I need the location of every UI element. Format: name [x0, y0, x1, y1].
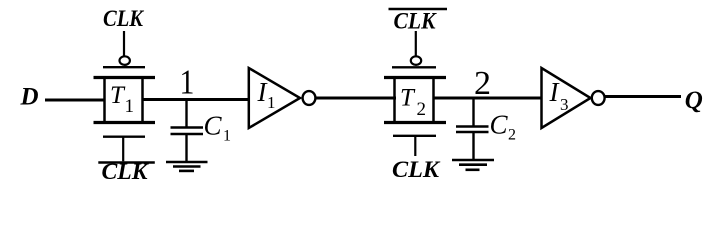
capacitor C2: [456, 98, 489, 160]
svg-text:CLK: CLK: [392, 157, 441, 182]
svg-text:2: 2: [417, 99, 427, 120]
T2 bottom gate bar: [393, 135, 436, 137]
svg-text:D: D: [20, 84, 39, 111]
wire T2 to I3 (node 2): [434, 97, 543, 100]
T2 top gate bar: [392, 66, 436, 68]
bubble I1 output: [303, 91, 316, 105]
wire I3 to Q: [605, 95, 681, 98]
bubble T2 top gate: [411, 56, 421, 65]
svg-text:1: 1: [223, 128, 231, 145]
wire T1 to I1 (node 1): [143, 98, 250, 101]
ground (C1): [166, 162, 208, 171]
svg-text:T: T: [400, 85, 416, 112]
wire CLK stub to T2 top bubble: [415, 31, 417, 56]
svg-text:2: 2: [474, 65, 491, 102]
capacitor C1: [171, 100, 204, 162]
svg-text:Q: Q: [685, 87, 703, 114]
inverter I3: [542, 68, 591, 128]
label node 1: [180, 63, 195, 102]
T1 top gate bar: [103, 66, 145, 68]
svg-text:C: C: [490, 110, 509, 140]
transmission gate T1: [94, 76, 156, 124]
label CLK-bar (T1 bottom): overline: [98, 161, 155, 164]
transmission gate T2: [384, 76, 446, 124]
svg-text:CLK: CLK: [103, 6, 144, 31]
bubble I3 output: [592, 91, 605, 105]
svg-text:3: 3: [560, 95, 569, 114]
wire D to T1: [45, 99, 105, 102]
svg-text:CLK: CLK: [102, 159, 150, 184]
wire T1 bottom gate stub: [122, 137, 124, 161]
svg-text:1: 1: [180, 63, 195, 102]
inverter I1: [249, 68, 300, 128]
svg-text:C: C: [204, 111, 223, 141]
svg-text:CLK: CLK: [394, 8, 438, 33]
svg-text:1: 1: [125, 96, 135, 117]
T1 bottom gate bar: [103, 136, 145, 138]
label CLK-bar (T2 top): overline: [389, 8, 448, 11]
svg-text:1: 1: [267, 93, 276, 112]
wire I1 to T2: [316, 97, 396, 100]
svg-text:2: 2: [508, 127, 516, 144]
wire CLK stub to T1 top bubble: [123, 31, 125, 56]
wire T2 bottom gate stub: [414, 136, 416, 156]
bubble T1 top gate: [120, 56, 130, 65]
ground (C2): [452, 160, 494, 170]
